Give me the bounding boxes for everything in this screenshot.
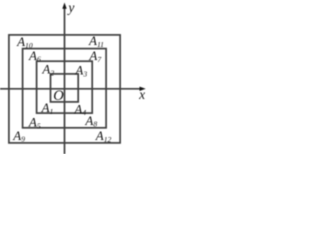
svg-text:A3: A3: [74, 63, 87, 79]
svg-text:A6: A6: [28, 48, 41, 64]
y-axis arrowhead: [62, 3, 66, 9]
x-axis arrowhead: [140, 87, 146, 91]
svg-text:A8: A8: [84, 113, 97, 129]
x-axis: [0, 88, 141, 90]
square 4 outermost (unlabeled): [9, 35, 120, 143]
svg-text:A7: A7: [88, 48, 102, 64]
square 3: A9 A10 A11 A12: [23, 49, 107, 128]
svg-text:x: x: [138, 87, 145, 102]
square 1 innermost: A1 A2 A3 A4: [51, 74, 79, 102]
svg-text:A5: A5: [28, 115, 41, 131]
svg-text:y: y: [66, 0, 74, 15]
svg-text:A12: A12: [95, 128, 112, 144]
svg-text:A2: A2: [41, 62, 54, 78]
svg-text:A10: A10: [16, 34, 33, 50]
svg-text:O: O: [53, 88, 64, 104]
square 2: A5 A6 A7 A8: [37, 61, 93, 113]
y-axis: [64, 8, 66, 155]
svg-text:A9: A9: [12, 128, 25, 144]
